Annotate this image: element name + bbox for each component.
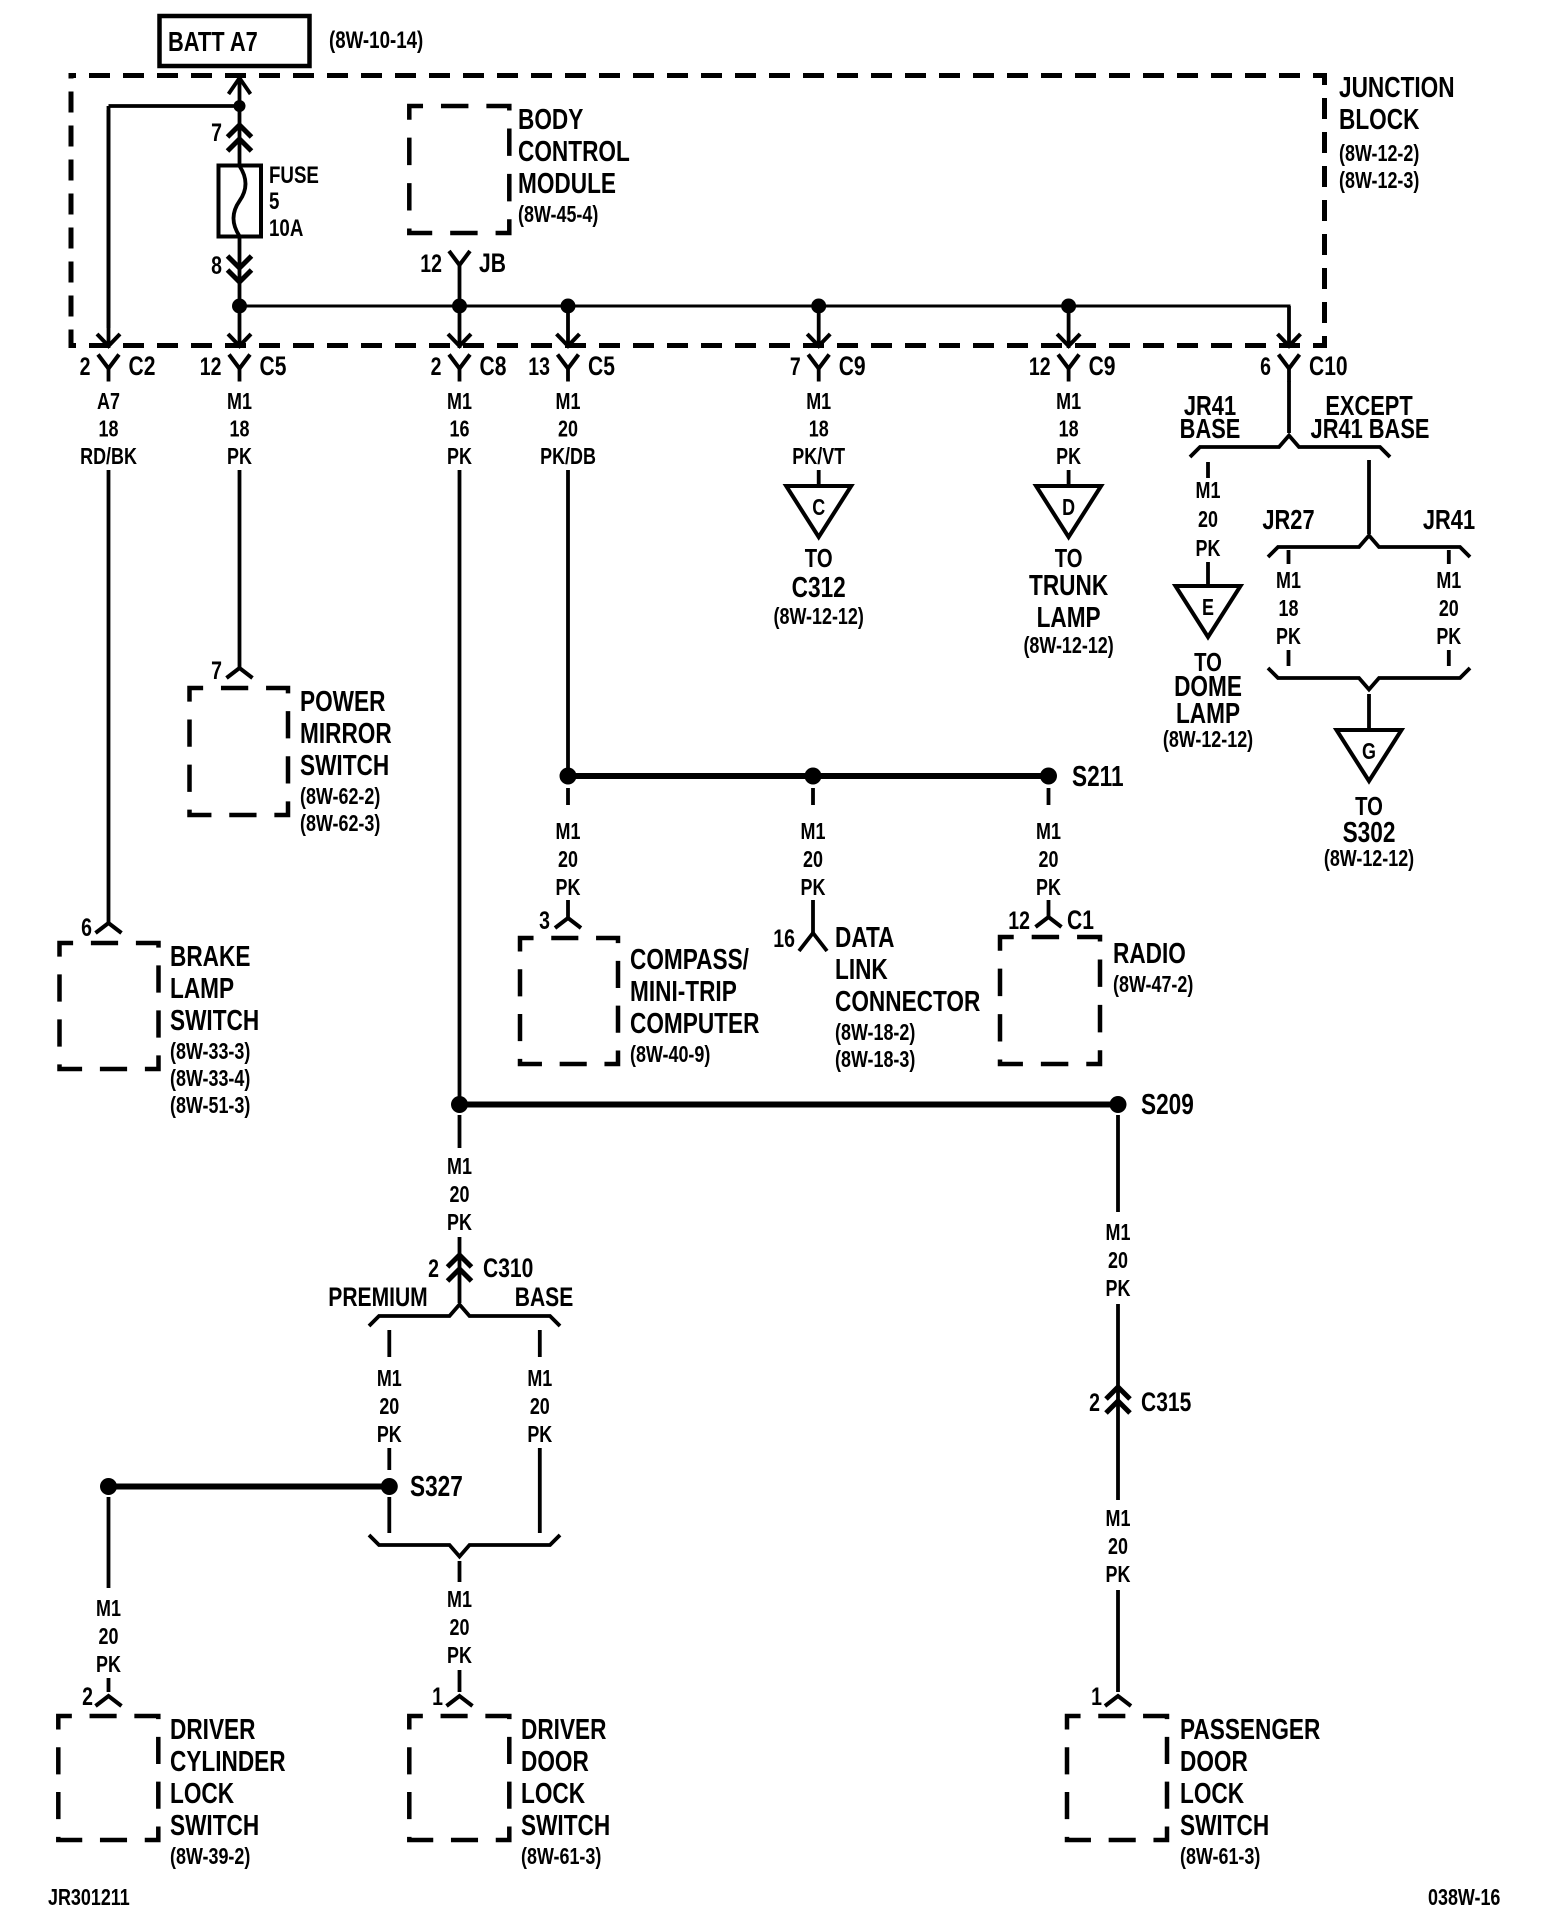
svg-text:C5: C5: [588, 352, 615, 382]
svg-text:JUNCTION: JUNCTION: [1339, 70, 1455, 103]
svg-text:COMPUTER: COMPUTER: [630, 1006, 760, 1039]
svg-text:M1: M1: [801, 819, 826, 845]
svg-text:PK: PK: [1106, 1276, 1131, 1302]
svg-text:(8W-33-4): (8W-33-4): [170, 1066, 250, 1092]
svg-text:PK: PK: [447, 444, 472, 470]
svg-text:20: 20: [803, 847, 823, 873]
svg-text:FUSE: FUSE: [269, 162, 319, 189]
svg-text:(8W-12-12): (8W-12-12): [1023, 633, 1113, 659]
svg-text:20: 20: [1039, 847, 1059, 873]
svg-text:C: C: [812, 495, 825, 521]
svg-text:2: 2: [1089, 1389, 1100, 1417]
svg-text:TRUNK: TRUNK: [1029, 568, 1108, 601]
svg-text:M1: M1: [1056, 389, 1081, 415]
svg-text:SWITCH: SWITCH: [1180, 1808, 1269, 1841]
svg-text:M1: M1: [227, 389, 252, 415]
svg-text:(8W-12-12): (8W-12-12): [1324, 846, 1414, 872]
svg-text:C5: C5: [260, 352, 287, 382]
svg-text:(8W-18-3): (8W-18-3): [835, 1047, 915, 1073]
svg-text:MIRROR: MIRROR: [300, 716, 392, 749]
svg-text:20: 20: [558, 847, 578, 873]
svg-text:JR41 BASE: JR41 BASE: [1311, 413, 1430, 444]
svg-text:PK: PK: [1056, 444, 1081, 470]
svg-text:PK: PK: [527, 1422, 552, 1448]
svg-text:2: 2: [428, 1255, 439, 1283]
svg-text:3: 3: [539, 907, 550, 935]
svg-text:LAMP: LAMP: [1176, 696, 1240, 729]
svg-text:(8W-62-3): (8W-62-3): [300, 811, 380, 837]
svg-text:M1: M1: [1036, 819, 1061, 845]
svg-text:12: 12: [420, 250, 442, 278]
svg-text:6: 6: [1260, 353, 1271, 381]
svg-text:JB: JB: [479, 249, 506, 279]
svg-text:COMPASS/: COMPASS/: [630, 942, 749, 975]
svg-text:(8W-12-2): (8W-12-2): [1339, 141, 1419, 167]
svg-text:PREMIUM: PREMIUM: [328, 1283, 427, 1313]
svg-text:SWITCH: SWITCH: [300, 748, 389, 781]
svg-text:C315: C315: [1141, 1388, 1191, 1418]
svg-text:M1: M1: [96, 1596, 121, 1622]
svg-text:16: 16: [773, 925, 795, 953]
svg-text:(8W-40-9): (8W-40-9): [630, 1042, 710, 1068]
svg-text:7: 7: [211, 657, 222, 685]
svg-text:CONNECTOR: CONNECTOR: [835, 984, 981, 1017]
svg-text:(8W-51-3): (8W-51-3): [170, 1093, 250, 1119]
svg-text:20: 20: [379, 1394, 399, 1420]
svg-text:6: 6: [81, 914, 92, 942]
svg-text:JR41: JR41: [1423, 504, 1475, 535]
svg-text:5: 5: [269, 188, 279, 215]
svg-text:C9: C9: [839, 352, 866, 382]
svg-text:CONTROL: CONTROL: [518, 134, 630, 167]
svg-text:A7: A7: [97, 389, 120, 415]
svg-text:16: 16: [450, 416, 470, 442]
svg-text:TO: TO: [805, 544, 833, 573]
svg-text:C9: C9: [1089, 352, 1116, 382]
svg-text:(8W-12-3): (8W-12-3): [1339, 168, 1419, 194]
svg-text:PASSENGER: PASSENGER: [1180, 1712, 1321, 1745]
svg-text:BATT A7: BATT A7: [168, 26, 258, 57]
svg-text:C2: C2: [129, 352, 156, 382]
svg-text:18: 18: [809, 416, 829, 442]
svg-text:20: 20: [1439, 596, 1459, 622]
svg-text:PK: PK: [1036, 875, 1061, 901]
svg-text:PK: PK: [1106, 1562, 1131, 1588]
svg-text:DOOR: DOOR: [1180, 1744, 1248, 1777]
svg-text:D: D: [1062, 495, 1075, 521]
svg-text:7: 7: [790, 353, 801, 381]
svg-text:BASE: BASE: [515, 1283, 573, 1313]
svg-text:20: 20: [450, 1615, 470, 1641]
svg-text:M1: M1: [1196, 478, 1221, 504]
svg-text:(8W-61-3): (8W-61-3): [521, 1844, 601, 1870]
svg-text:20: 20: [1108, 1248, 1128, 1274]
svg-text:LAMP: LAMP: [170, 971, 234, 1004]
svg-text:M1: M1: [1276, 568, 1301, 594]
svg-text:PK: PK: [377, 1422, 402, 1448]
svg-text:2: 2: [431, 353, 442, 381]
svg-text:12: 12: [200, 353, 222, 381]
svg-text:M1: M1: [556, 819, 581, 845]
svg-text:PK: PK: [447, 1210, 472, 1236]
svg-text:M1: M1: [447, 1587, 472, 1613]
svg-text:C310: C310: [483, 1254, 533, 1284]
svg-text:8: 8: [211, 252, 222, 280]
svg-text:1: 1: [432, 1683, 443, 1711]
svg-text:(8W-39-2): (8W-39-2): [170, 1844, 250, 1870]
svg-text:18: 18: [1279, 596, 1299, 622]
svg-text:BLOCK: BLOCK: [1339, 102, 1420, 135]
svg-text:(8W-33-3): (8W-33-3): [170, 1039, 250, 1065]
svg-text:12: 12: [1008, 907, 1030, 935]
svg-text:18: 18: [230, 416, 250, 442]
svg-text:(8W-62-2): (8W-62-2): [300, 784, 380, 810]
svg-text:20: 20: [558, 416, 578, 442]
svg-text:1: 1: [1091, 1683, 1102, 1711]
svg-text:C8: C8: [480, 352, 507, 382]
svg-text:20: 20: [1198, 507, 1218, 533]
svg-text:POWER: POWER: [300, 684, 386, 717]
svg-text:JR27: JR27: [1262, 504, 1314, 535]
svg-text:12: 12: [1029, 353, 1051, 381]
svg-text:C312: C312: [792, 570, 846, 603]
svg-text:(8W-12-12): (8W-12-12): [774, 604, 864, 630]
svg-text:(8W-18-2): (8W-18-2): [835, 1020, 915, 1046]
svg-text:M1: M1: [556, 389, 581, 415]
svg-text:20: 20: [530, 1394, 550, 1420]
svg-text:PK: PK: [1196, 536, 1221, 562]
svg-text:(8W-47-2): (8W-47-2): [1113, 972, 1193, 998]
svg-text:PK: PK: [447, 1643, 472, 1669]
svg-text:LAMP: LAMP: [1037, 600, 1101, 633]
svg-text:M1: M1: [377, 1366, 402, 1392]
svg-text:M1: M1: [447, 389, 472, 415]
svg-text:E: E: [1202, 595, 1214, 621]
svg-text:RD/BK: RD/BK: [80, 444, 137, 470]
svg-text:(8W-10-14): (8W-10-14): [329, 27, 423, 54]
svg-text:PK: PK: [96, 1652, 121, 1678]
svg-text:DRIVER: DRIVER: [170, 1712, 256, 1745]
svg-text:DATA: DATA: [835, 920, 895, 953]
svg-text:G: G: [1362, 739, 1376, 765]
svg-text:LINK: LINK: [835, 952, 888, 985]
svg-text:PK: PK: [227, 444, 252, 470]
svg-text:M1: M1: [806, 389, 831, 415]
svg-text:DRIVER: DRIVER: [521, 1712, 607, 1745]
svg-text:13: 13: [528, 353, 550, 381]
svg-text:20: 20: [450, 1182, 470, 1208]
svg-text:2: 2: [82, 1683, 93, 1711]
svg-text:LOCK: LOCK: [1180, 1776, 1244, 1809]
svg-text:C10: C10: [1309, 352, 1348, 382]
svg-text:10A: 10A: [269, 215, 303, 242]
svg-text:(8W-12-12): (8W-12-12): [1163, 727, 1253, 753]
svg-text:2: 2: [80, 353, 91, 381]
svg-text:BODY: BODY: [518, 102, 583, 135]
svg-text:LOCK: LOCK: [170, 1776, 234, 1809]
svg-text:PK: PK: [1436, 624, 1461, 650]
svg-text:(8W-45-4): (8W-45-4): [518, 202, 598, 228]
svg-text:M1: M1: [1436, 568, 1461, 594]
svg-text:LOCK: LOCK: [521, 1776, 585, 1809]
svg-text:(8W-61-3): (8W-61-3): [1180, 1844, 1260, 1870]
svg-text:038W-16: 038W-16: [1428, 1885, 1500, 1911]
svg-text:18: 18: [1059, 416, 1079, 442]
svg-text:C1: C1: [1067, 906, 1094, 936]
svg-text:S327: S327: [410, 1469, 463, 1502]
svg-text:S209: S209: [1141, 1087, 1194, 1120]
svg-text:JR301211: JR301211: [48, 1885, 130, 1911]
svg-text:BRAKE: BRAKE: [170, 939, 250, 972]
svg-text:20: 20: [1108, 1534, 1128, 1560]
svg-text:SWITCH: SWITCH: [521, 1808, 610, 1841]
svg-text:CYLINDER: CYLINDER: [170, 1744, 286, 1777]
svg-text:DOOR: DOOR: [521, 1744, 589, 1777]
svg-text:18: 18: [99, 416, 119, 442]
svg-text:PK: PK: [556, 875, 581, 901]
svg-text:RADIO: RADIO: [1113, 936, 1186, 969]
svg-text:M1: M1: [1106, 1220, 1131, 1246]
svg-text:M1: M1: [527, 1366, 552, 1392]
svg-text:PK: PK: [1276, 624, 1301, 650]
svg-text:MODULE: MODULE: [518, 166, 616, 199]
svg-text:SWITCH: SWITCH: [170, 1808, 259, 1841]
svg-text:M1: M1: [447, 1154, 472, 1180]
svg-text:PK: PK: [801, 875, 826, 901]
svg-text:PK/VT: PK/VT: [792, 444, 845, 470]
svg-text:S302: S302: [1343, 815, 1396, 848]
svg-text:SWITCH: SWITCH: [170, 1003, 259, 1036]
svg-text:M1: M1: [1106, 1506, 1131, 1532]
svg-text:MINI-TRIP: MINI-TRIP: [630, 974, 737, 1007]
svg-text:20: 20: [99, 1624, 119, 1650]
svg-text:S211: S211: [1072, 759, 1124, 792]
svg-text:BASE: BASE: [1180, 413, 1241, 444]
svg-text:PK/DB: PK/DB: [540, 444, 596, 470]
svg-text:7: 7: [211, 119, 222, 147]
